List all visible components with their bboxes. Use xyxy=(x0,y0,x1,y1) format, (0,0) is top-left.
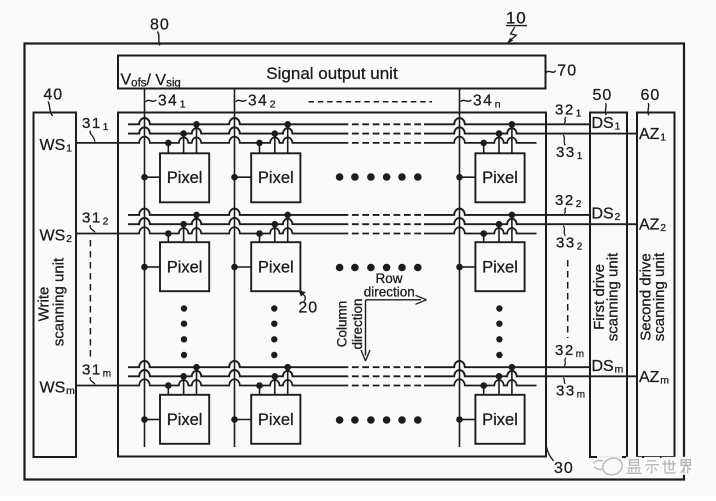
svg-text:Column: Column xyxy=(335,301,350,348)
svg-text:scanning unit: scanning unit xyxy=(605,252,622,341)
svg-text:60: 60 xyxy=(641,87,661,104)
svg-text:Pixel: Pixel xyxy=(258,411,294,429)
svg-text:Pixel: Pixel xyxy=(482,411,518,429)
svg-text:70: 70 xyxy=(557,63,577,80)
svg-text:Pixel: Pixel xyxy=(258,169,294,187)
svg-text:80: 80 xyxy=(150,17,170,34)
svg-text:Pixel: Pixel xyxy=(167,259,203,277)
svg-text:Signal output unit: Signal output unit xyxy=(266,64,398,83)
svg-text:40: 40 xyxy=(43,87,63,104)
svg-text:direction: direction xyxy=(350,298,365,349)
svg-text:50: 50 xyxy=(593,87,613,104)
svg-text:30: 30 xyxy=(554,460,574,477)
svg-text:10: 10 xyxy=(506,8,527,27)
svg-text:Pixel: Pixel xyxy=(482,169,518,187)
svg-text:Pixel: Pixel xyxy=(258,259,294,277)
svg-text:Pixel: Pixel xyxy=(167,169,203,187)
svg-text:Pixel: Pixel xyxy=(482,259,518,277)
svg-text:scanning unit: scanning unit xyxy=(651,252,668,341)
svg-text:Pixel: Pixel xyxy=(167,411,203,429)
svg-text:20: 20 xyxy=(298,299,318,316)
svg-text:direction: direction xyxy=(364,284,415,299)
svg-text:scanning unit: scanning unit xyxy=(50,257,67,346)
